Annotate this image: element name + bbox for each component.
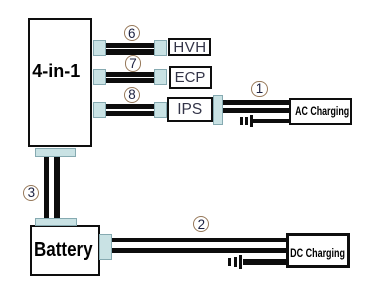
4-in-1 unit box xyxy=(28,18,92,147)
wire: DC plug lead xyxy=(243,259,287,264)
AC plug pin 2 xyxy=(245,117,248,125)
label 2 (circled) xyxy=(193,216,209,232)
connector: HVH side of cable xyxy=(154,40,167,56)
connector bar: bottom of 4-in-1 xyxy=(35,148,76,157)
connector: battery right side (DC charging cable) xyxy=(99,234,112,260)
label 7 (circled) xyxy=(125,55,141,71)
HVH box xyxy=(168,38,211,56)
wire: AC charging cable line 2 xyxy=(222,108,290,113)
connector: 4-in-1 side of IPS cable xyxy=(93,102,106,118)
DC plug pin 1 xyxy=(228,258,231,266)
wire: DC charging cable line 2 xyxy=(112,248,287,254)
Battery box xyxy=(30,225,100,276)
wire: IPS cable upper conductor xyxy=(105,104,155,109)
connector bar: top of battery xyxy=(35,218,77,226)
connector: IPS side of cable xyxy=(154,102,167,118)
AC Charging box xyxy=(289,98,352,125)
wire: AC charging cable line 1 xyxy=(222,100,290,105)
wire: battery cable right conductor xyxy=(54,157,60,219)
connector: 4-in-1 side of ECP cable xyxy=(93,69,106,85)
label 8 (circled) xyxy=(124,87,140,103)
ECP box xyxy=(169,66,212,90)
wire: DC charging cable line 1 xyxy=(112,238,287,243)
IPS box xyxy=(167,97,213,122)
wire: IPS cable lower conductor xyxy=(105,111,155,116)
connector: IPS right side (AC charging cable) xyxy=(213,95,223,125)
label 3 (circled) xyxy=(23,185,39,201)
wire: battery cable left conductor xyxy=(44,157,50,219)
label 6 (circled) xyxy=(124,25,140,41)
wire: HVH cable upper conductor xyxy=(105,43,155,48)
DC plug pin 2 xyxy=(234,257,237,267)
label 1 (circled) xyxy=(251,81,267,97)
connector: ECP side of cable xyxy=(154,69,167,85)
AC plug pin 1 xyxy=(240,117,243,125)
DC Charging box xyxy=(286,233,350,268)
AC plug pin 3 xyxy=(250,115,253,127)
wire: AC plug lead xyxy=(253,119,290,124)
wire: ECP cable upper conductor xyxy=(105,72,155,77)
DC plug pin 3 xyxy=(239,255,242,269)
wire: ECP cable lower conductor xyxy=(105,78,155,83)
wire: HVH cable lower conductor xyxy=(105,49,155,54)
connector: 4-in-1 side of HVH cable xyxy=(93,40,106,56)
